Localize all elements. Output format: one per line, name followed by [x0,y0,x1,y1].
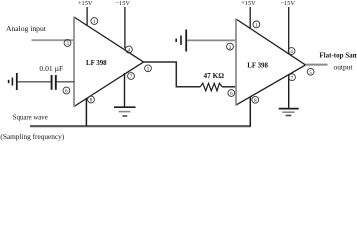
label -15V (U1) [116,0,131,7]
wire +15V to U1 pin 1 [86,7,88,26]
wire U1 output to resistor R1 [144,62,201,87]
ground (below U2, pin 7) [279,75,299,116]
pin 1 (U2) [253,21,260,29]
ground (sideways, hold-cap return) [9,73,17,90]
wire U1 pin 8 to bus [85,98,87,126]
svg-text:LF 398: LF 398 [86,60,107,67]
ground (sideways, U2 input) [176,30,186,52]
svg-text:−15V: −15V [281,0,296,7]
svg-text:0.01 µF: 0.01 µF [39,64,63,73]
op-amp U1 (LF 398 sample-and-hold, left) [74,17,144,108]
wire resistor R1 to U2 pin 6 [222,86,236,88]
svg-text:Flat-top Sampled: Flat-top Sampled [319,51,357,59]
wire analog input to U1 pin 3 [32,39,75,41]
ground (below U1, pin 7) [114,73,136,116]
wire capacitor C1 to U1 pin 6 [57,81,75,83]
svg-text:+15V: +15V [241,0,256,7]
wire U2 pin 8 to bus [249,98,251,127]
label -15V (U2) [281,0,296,7]
capacitor C1 0.01 uF [52,75,56,90]
svg-text:Analog input: Analog input [6,24,47,33]
pin 5 output (U1) [145,65,152,73]
svg-text:47 KΩ: 47 KΩ [204,72,225,80]
label +15V (U2) [241,0,256,7]
pin 1 (U1) [91,18,98,26]
pin 8 (U1) [88,96,95,104]
svg-text:−15V: −15V [116,0,131,7]
wire ground to capacitor C1 [18,81,52,83]
pin 6 (U1) [63,87,70,95]
pin 7 (U1) [128,73,135,81]
pin 6 (U2) [228,90,235,98]
wire ground to U2 pin 3 [187,39,236,41]
op-amp U2 (LF 398 sample-and-hold, right) [236,19,306,106]
label Analog input [6,24,47,33]
label Flat-top Sampled output [319,51,357,71]
pin 8 (U2) [252,96,259,104]
pin 4 (U2) [288,48,295,56]
resistor R1 47 kOhm [200,83,222,91]
svg-text:output: output [334,62,354,71]
svg-text:Square wave: Square wave [13,114,48,121]
svg-text:(Sampling frequency): (Sampling frequency) [0,132,64,141]
pin 3 (U1) [64,40,71,48]
svg-text:LF 398: LF 398 [247,63,268,70]
pin 3 (U2) [227,43,234,51]
label C1 value 0.01 uF [39,64,63,73]
label +15V (U1) [78,0,93,7]
label (Sampling frequency) [0,132,64,141]
svg-text:+15V: +15V [78,0,93,7]
pin 7 (U2) [289,74,296,82]
label U1 value LF 398 [86,60,107,67]
label Square wave [13,114,48,121]
pin 4 (U1) [125,46,132,54]
label R1 value 47 KOhm [204,72,225,80]
wire -15V to U2 pin 4 [288,7,290,54]
wire -15V to U1 pin 4 [124,7,126,49]
pin 5 output (U2) [307,68,314,76]
wire +15V to U2 pin 1 [249,7,251,29]
label U2 value LF 398 [247,63,268,70]
wire U2 output [306,64,328,66]
node: sampling bus [30,125,251,127]
